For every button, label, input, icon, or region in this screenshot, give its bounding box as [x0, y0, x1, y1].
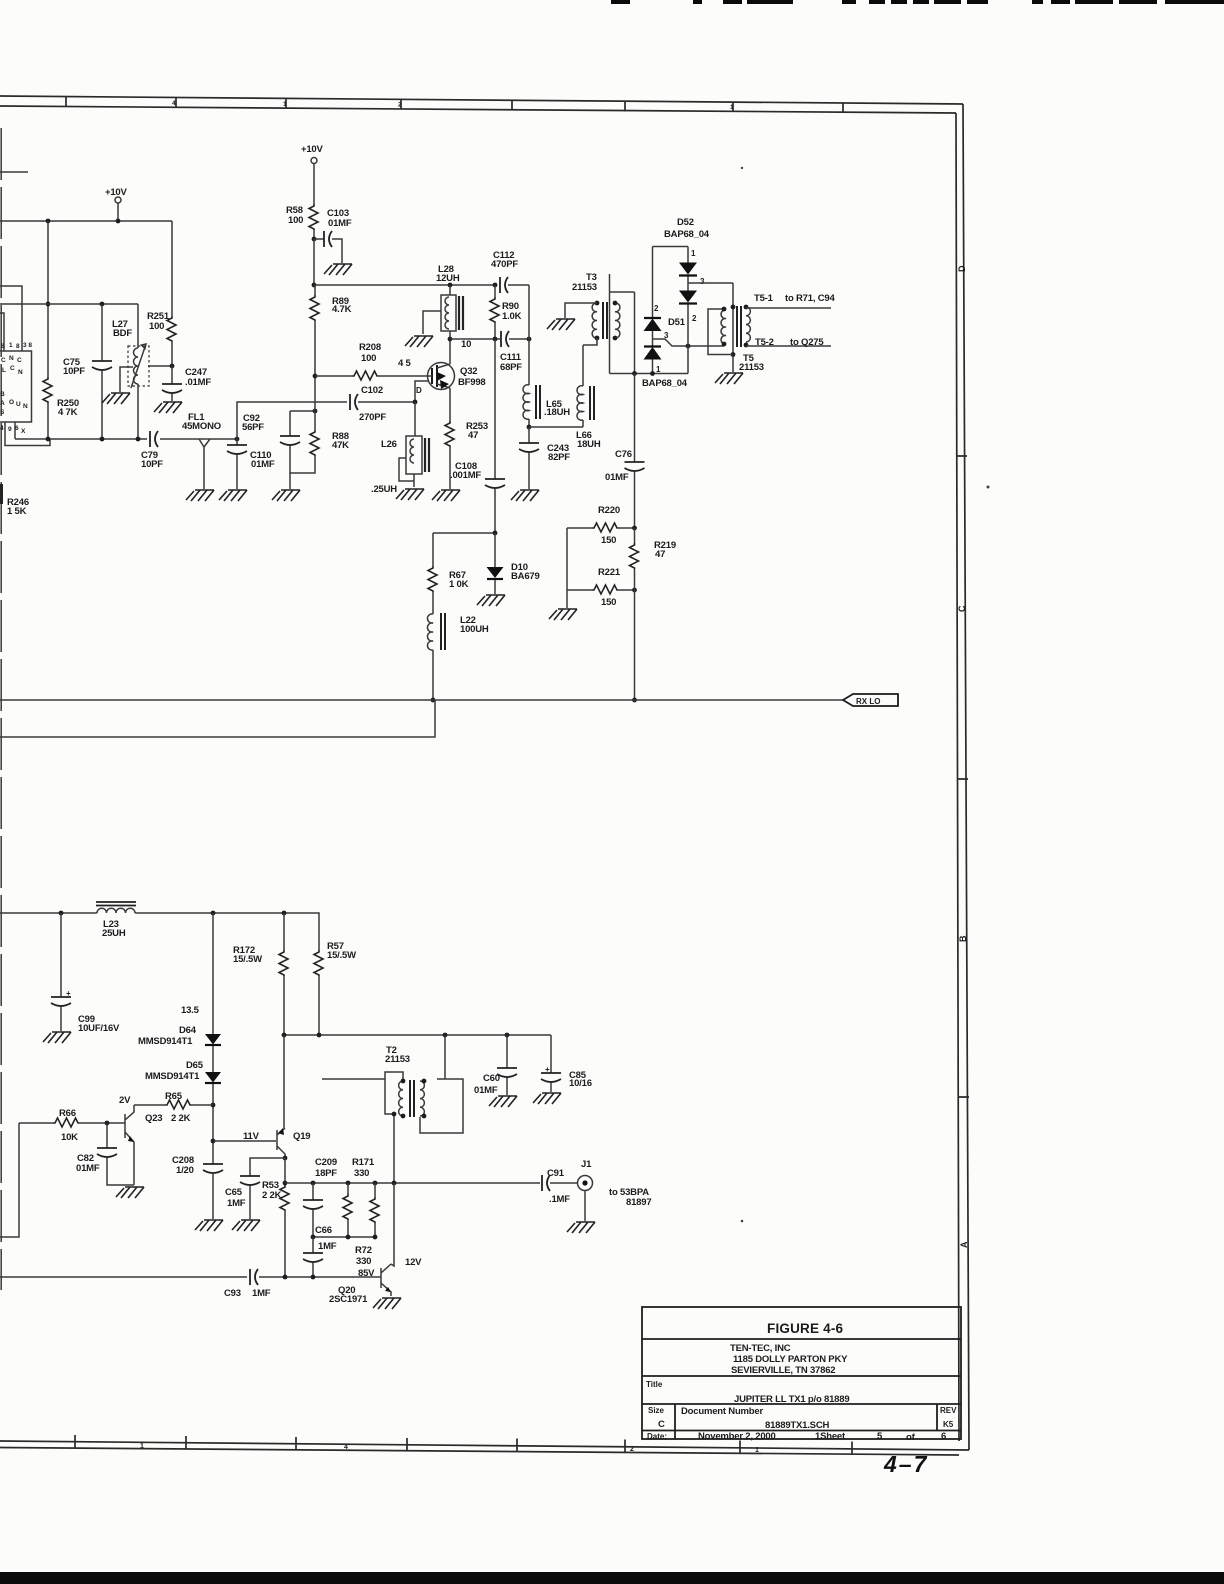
svg-text:85V: 85V: [358, 1268, 375, 1279]
svg-text:4 7K: 4 7K: [58, 407, 78, 418]
svg-text:C91: C91: [547, 1168, 565, 1179]
bottom border tick marks: [75, 1435, 852, 1455]
resistor R53: [262, 1158, 289, 1277]
svg-text:2V: 2V: [119, 1095, 131, 1106]
wire D52 tap y=283 to T5: [688, 282, 733, 284]
wire stub into U-box: [0, 286, 22, 351]
svg-text:Document Number: Document Number: [681, 1406, 763, 1417]
svg-text:100UH: 100UH: [460, 624, 489, 635]
wire drain x=450 and source chain: [449, 339, 451, 421]
ground (L28 shield): [405, 336, 433, 347]
capacitor C76: [605, 374, 645, 529]
svg-text:25UH: 25UH: [102, 928, 126, 939]
svg-text:C: C: [10, 365, 15, 372]
svg-text:01MF: 01MF: [251, 459, 275, 470]
svg-text:N: N: [23, 403, 28, 410]
svg-text:47K: 47K: [332, 440, 349, 451]
top border tick marks: [66, 97, 843, 114]
svg-text:1185 DOLLY PARTON PKY: 1185 DOLLY PARTON PKY: [733, 1354, 848, 1365]
capacitor C247: [162, 366, 211, 401]
svg-text:N: N: [18, 369, 23, 376]
svg-text:18PF: 18PF: [315, 1168, 337, 1179]
capacitor C110: [250, 411, 315, 489]
connector J1: [578, 1159, 652, 1221]
label R246 (cut): [0, 484, 29, 517]
ground (T5): [715, 373, 743, 384]
svg-text:68PF: 68PF: [500, 362, 522, 373]
svg-text:4: 4: [0, 425, 4, 432]
ground (J1): [567, 1222, 595, 1233]
svg-text:12V: 12V: [405, 1257, 422, 1268]
inductor L23: [96, 902, 136, 939]
svg-text:150: 150: [601, 535, 616, 546]
svg-text:REV: REV: [940, 1406, 957, 1415]
svg-text:15/.5W: 15/.5W: [233, 954, 262, 965]
svg-text:1.0K: 1.0K: [502, 311, 522, 322]
svg-text:MMSD914T1: MMSD914T1: [145, 1071, 200, 1082]
svg-text:D51: D51: [668, 317, 686, 328]
svg-text:.01MF: .01MF: [185, 377, 211, 388]
svg-text:6: 6: [941, 1431, 946, 1442]
ground (C110/R88): [272, 490, 300, 501]
svg-text:Q32: Q32: [460, 366, 477, 377]
svg-text:FIGURE 4-6: FIGURE 4-6: [767, 1321, 844, 1336]
resistor R72: [355, 1183, 379, 1267]
capacitor C91: [542, 1168, 577, 1205]
wire L65/L66 link y=427: [529, 426, 583, 428]
svg-text:to R71, C94: to R71, C94: [785, 293, 835, 304]
wire +10V rail y=221: [0, 220, 172, 222]
wire R67 node y=533: [433, 532, 495, 534]
capacitor C209: [303, 1183, 323, 1237]
sheet border: top double line: [0, 96, 969, 1455]
svg-text:+10V: +10V: [301, 144, 324, 155]
svg-text:1: 1: [691, 249, 696, 258]
ground (C103): [324, 264, 352, 275]
node C110/R88 top y=411: [290, 410, 315, 412]
resistor R253: [445, 421, 488, 489]
svg-text:O: O: [9, 399, 14, 406]
svg-text:C: C: [1, 357, 6, 364]
wire drain rail y=285: [314, 284, 497, 286]
wire T5-1 output: [746, 307, 831, 309]
collector feed wire y=1035: [284, 1034, 551, 1036]
wire x=213 bias chain: [212, 913, 214, 1164]
border zone digits bottom: [140, 1443, 759, 1454]
svg-text:100: 100: [288, 215, 303, 226]
shielded inductor L28: [423, 264, 463, 339]
svg-text:C65: C65: [225, 1187, 243, 1198]
svg-text:1/20: 1/20: [176, 1165, 194, 1176]
variable inductor L27: [112, 304, 149, 439]
svg-text:C: C: [17, 357, 22, 364]
svg-text:D: D: [957, 265, 967, 272]
svg-text:270PF: 270PF: [359, 412, 386, 423]
resistor R250: [43, 377, 79, 418]
wire branch x=48: [47, 221, 49, 439]
svg-text:B: B: [958, 935, 968, 942]
power +10V (Q32 rail): [301, 144, 324, 204]
ground (C99): [43, 1032, 71, 1043]
svg-text:R221: R221: [598, 567, 621, 578]
svg-text:D: D: [416, 386, 422, 395]
svg-text:2: 2: [654, 304, 659, 313]
transformer T5: [708, 283, 764, 373]
svg-text:R65: R65: [165, 1091, 183, 1102]
wire T3 primary top to ground: [565, 303, 597, 318]
wire R58 node down to rail: [313, 239, 315, 285]
svg-text:10K: 10K: [61, 1132, 78, 1143]
capacitor C65: [225, 1158, 285, 1219]
svg-text:C93: C93: [224, 1288, 241, 1299]
capacitor C92: [227, 413, 264, 489]
svg-text:.18UH: .18UH: [544, 407, 570, 418]
ground (C60): [489, 1096, 517, 1107]
title block frame: [642, 1307, 961, 1439]
ground (FL1): [186, 490, 214, 501]
transistor Q20 2SC1971: [329, 1183, 422, 1305]
svg-text:150: 150: [601, 597, 616, 608]
wire vertical x=634.5: [634, 292, 636, 374]
svg-text:2SC1971: 2SC1971: [329, 1294, 368, 1305]
svg-text:C66: C66: [315, 1225, 332, 1236]
base feed wire y=1277: [0, 1276, 381, 1278]
wire D51 tap to T5 y=346: [653, 339, 725, 346]
svg-text:4–7: 4–7: [883, 1451, 928, 1477]
svg-text:Title: Title: [646, 1380, 663, 1389]
transformer T2: [322, 1035, 463, 1183]
svg-text:3 8: 3 8: [23, 342, 32, 349]
svg-text:13.5: 13.5: [181, 1005, 200, 1016]
U-box bottom pin wires: [5, 422, 50, 446]
svg-text:R171: R171: [352, 1157, 375, 1168]
svg-text:B: B: [0, 391, 5, 398]
svg-text:RX LO: RX LO: [856, 697, 880, 706]
resistor R208: [315, 342, 428, 380]
svg-text:12UH: 12UH: [436, 273, 460, 284]
wire gate2 from C102 node: [415, 381, 429, 402]
ground (C247): [154, 402, 182, 413]
svg-text:56PF: 56PF: [242, 422, 264, 433]
svg-text:100: 100: [149, 321, 164, 332]
resistor R220: [567, 505, 635, 546]
svg-text:1: 1: [140, 1443, 144, 1450]
svg-text:1MF: 1MF: [252, 1288, 271, 1299]
svg-text:15/.5W: 15/.5W: [327, 950, 356, 961]
svg-text:C102: C102: [361, 385, 383, 396]
wire T3 secondary top y=292: [610, 291, 635, 293]
svg-text:November 2, 2000: November 2, 2000: [698, 1431, 776, 1442]
ground (C65): [232, 1220, 260, 1231]
border zone digits top: [172, 100, 734, 111]
capacitor C99 (polarized): [51, 913, 120, 1034]
wire T3 secondary stub: [609, 274, 611, 374]
svg-text:BDF: BDF: [113, 328, 132, 339]
svg-text:8: 8: [16, 343, 20, 350]
ground (R253): [432, 490, 460, 501]
svg-text:100: 100: [361, 353, 376, 364]
svg-text:C76: C76: [615, 449, 632, 460]
diode D64 MMSD914T1: [138, 1025, 221, 1047]
svg-text:1MF: 1MF: [318, 1241, 337, 1252]
svg-text:C209: C209: [315, 1157, 337, 1168]
svg-text:4: 4: [344, 1444, 348, 1451]
capacitor C102: [350, 385, 386, 423]
wire cut at left sheet edge: [0, 128, 2, 1290]
MOSFET Q32 BF998: [428, 363, 486, 390]
svg-text:.25UH: .25UH: [371, 484, 397, 495]
wire node 10 y=339: [450, 338, 500, 340]
diode D10 BA679: [487, 533, 540, 594]
svg-text:of: of: [906, 1432, 916, 1443]
svg-text:2: 2: [630, 1446, 634, 1453]
svg-text:47: 47: [655, 549, 665, 560]
right border tick marks: [956, 456, 969, 1097]
power +10V (left): [105, 187, 128, 221]
svg-text:4: 4: [172, 100, 176, 107]
svg-text:T5-1: T5-1: [754, 293, 774, 304]
svg-text:47: 47: [468, 430, 478, 441]
svg-text:470PF: 470PF: [491, 259, 518, 270]
svg-text:10/16: 10/16: [569, 1078, 592, 1089]
svg-text:10: 10: [461, 339, 471, 350]
capacitor C108: [450, 339, 505, 533]
svg-text:JUPITER LL TX1 p/o 81889: JUPITER LL TX1 p/o 81889: [734, 1394, 849, 1405]
resistor R88: [310, 411, 349, 456]
svg-text:U: U: [16, 401, 21, 408]
svg-text:01MF: 01MF: [328, 218, 352, 229]
capacitor C112: [491, 250, 529, 293]
svg-text:BF998: BF998: [458, 377, 486, 388]
svg-text:+: +: [66, 989, 71, 998]
svg-text:A: A: [0, 400, 5, 407]
capacitor C208: [172, 1155, 223, 1219]
svg-text:+: +: [545, 1065, 550, 1074]
svg-text:J1: J1: [581, 1159, 592, 1170]
node wire y=1237: [313, 1236, 375, 1238]
wire D-network top y=246.5: [653, 246, 689, 248]
svg-text:T5-2: T5-2: [755, 337, 774, 348]
svg-text:.1MF: .1MF: [549, 1194, 570, 1205]
svg-text:1: 1: [730, 104, 734, 111]
svg-text:BAP68_04: BAP68_04: [664, 229, 710, 240]
ground (C85): [533, 1093, 561, 1104]
svg-text:10PF: 10PF: [141, 459, 163, 470]
capacitor C93: [224, 1269, 271, 1299]
capacitor C75: [63, 304, 112, 439]
resistor R251: [147, 221, 176, 366]
stray scan specks: [741, 167, 743, 169]
svg-text:330: 330: [354, 1168, 369, 1179]
wire bias to Q19 base y=1141: [213, 1140, 276, 1142]
svg-text:D65: D65: [186, 1060, 204, 1071]
transistor Q19: [277, 1128, 310, 1158]
resistor R171: [343, 1183, 352, 1237]
capacitor C60: [474, 1035, 517, 1096]
svg-text:1: 1: [755, 1447, 759, 1454]
wire R66 feed from left: [0, 1123, 19, 1237]
svg-text:MMSD914T1: MMSD914T1: [138, 1036, 193, 1047]
ground (C208): [195, 1220, 223, 1231]
sheet border: right double line: [963, 104, 969, 1450]
svg-text:21153: 21153: [739, 362, 764, 373]
supply wire y=913: [0, 913, 319, 950]
svg-text:11V: 11V: [243, 1131, 260, 1142]
ground (Q20): [373, 1298, 401, 1309]
sheet border: bottom double line: [0, 1441, 969, 1450]
resistor R67: [428, 533, 469, 614]
svg-text:10PF: 10PF: [63, 366, 85, 377]
wire T5-2 output: [746, 345, 831, 347]
svg-text:18UH: 18UH: [577, 439, 601, 450]
IC U-box (cut off at left edge): [0, 342, 32, 435]
svg-text:L: L: [2, 367, 6, 374]
wire L27 tap to R251: [148, 365, 172, 367]
ground (L26): [396, 489, 424, 500]
svg-text:21153: 21153: [572, 282, 597, 293]
wire T3 primary bottom to L66: [583, 338, 597, 345]
svg-text:2 2K: 2 2K: [171, 1113, 191, 1124]
svg-text:2: 2: [398, 102, 402, 109]
resistor R57: [314, 941, 356, 1035]
svg-text:1: 1: [9, 342, 13, 349]
wire stub left edge y=172: [0, 171, 28, 173]
diode D65 MMSD914T1: [145, 1060, 221, 1083]
svg-text:45MONO: 45MONO: [182, 421, 221, 432]
svg-text:4 5: 4 5: [398, 358, 412, 369]
svg-text:9: 9: [8, 426, 12, 433]
svg-text:1 5K: 1 5K: [7, 506, 27, 517]
svg-text:1: 1: [283, 101, 287, 108]
svg-text:TEN-TEC, INC: TEN-TEC, INC: [730, 1343, 791, 1354]
inductor L22: [427, 613, 488, 700]
capacitor C243: [519, 427, 570, 489]
svg-text:SEVIERVILLE, TN 37862: SEVIERVILLE, TN 37862: [731, 1365, 835, 1376]
inductor L26 (shielded): [371, 402, 429, 495]
resistor R219: [630, 528, 676, 700]
svg-text:R66: R66: [59, 1108, 76, 1119]
wire FL1 to C92 node: [215, 438, 237, 440]
resistor R172: [233, 913, 288, 1035]
transistor Q23: [107, 1095, 191, 1185]
long wire RX LO y=700: [0, 699, 843, 701]
svg-text:10UF/16V: 10UF/16V: [78, 1023, 120, 1034]
resistor R221: [567, 528, 635, 608]
capacitor C103: [314, 208, 352, 263]
svg-text:R208: R208: [359, 342, 381, 353]
inductor L66: [576, 345, 601, 450]
ground (C243): [511, 490, 539, 501]
wire mixer bottom y=373.5: [610, 373, 689, 375]
output node wire y=1183: [285, 1182, 540, 1184]
svg-text:Q23: Q23: [145, 1113, 162, 1124]
ground (C92): [219, 490, 247, 501]
svg-text:4.7K: 4.7K: [332, 304, 352, 315]
svg-text:+10V: +10V: [105, 187, 128, 198]
long return wire y=737: [0, 700, 435, 737]
svg-text:81897: 81897: [626, 1197, 651, 1208]
svg-text:X: X: [21, 428, 26, 435]
resistor R89: [310, 285, 352, 411]
svg-text:01MF: 01MF: [474, 1085, 498, 1096]
capacitor C85 (polarized): [541, 1035, 592, 1092]
transformer T3: [572, 272, 620, 340]
svg-text:S: S: [0, 409, 5, 416]
scan artifact: top edge black dashes: [611, 0, 1224, 4]
svg-text:82PF: 82PF: [548, 452, 570, 463]
ground (D10): [477, 595, 505, 606]
svg-text:5: 5: [877, 1431, 883, 1442]
svg-text:3: 3: [700, 277, 705, 286]
svg-text:K5: K5: [943, 1420, 954, 1429]
svg-text:to Q275: to Q275: [790, 337, 824, 348]
scan artifact: bottom black bar: [0, 1572, 1224, 1584]
svg-text:C60: C60: [483, 1073, 500, 1084]
svg-text:1 0K: 1 0K: [449, 579, 469, 590]
svg-text:N: N: [9, 355, 14, 362]
svg-text:01MF: 01MF: [76, 1163, 100, 1174]
resistor R58: [286, 204, 318, 239]
capacitor C66: [303, 1225, 337, 1277]
svg-text:C: C: [957, 605, 967, 612]
svg-text:81889TX1.SCH: 81889TX1.SCH: [765, 1420, 829, 1431]
svg-text:A: A: [959, 1241, 969, 1248]
ceramic filter FL1: [182, 412, 221, 489]
UPPER-END: [0, 902, 651, 1309]
svg-text:R72: R72: [355, 1245, 372, 1256]
svg-text:Date:: Date:: [647, 1432, 667, 1441]
wire bus y=304: [0, 303, 138, 305]
svg-text:01MF: 01MF: [605, 472, 629, 483]
svg-text:L26: L26: [381, 439, 397, 450]
svg-text:8: 8: [1, 343, 5, 350]
svg-text:BAP68_04: BAP68_04: [642, 378, 688, 389]
svg-text:21153: 21153: [385, 1054, 410, 1065]
svg-text:Size: Size: [648, 1406, 665, 1415]
capacitor C111: [500, 331, 529, 373]
capacitor C79: [141, 431, 163, 470]
resistor R90: [490, 285, 522, 339]
ground (L27): [102, 393, 130, 404]
wire x=529 down, inductor L65: [523, 285, 570, 427]
svg-text:R220: R220: [598, 505, 620, 516]
svg-text:2: 2: [692, 314, 697, 323]
resistor R66: [19, 1108, 107, 1143]
capacitor C82: [76, 1123, 134, 1185]
resistor R65: [134, 1091, 213, 1109]
svg-text:1: 1: [656, 365, 661, 374]
svg-text:C: C: [658, 1419, 665, 1430]
svg-text:D64: D64: [179, 1025, 197, 1036]
wire input y=439: [15, 438, 197, 440]
ground (Q23/C82): [116, 1187, 144, 1198]
svg-text:.001MF: .001MF: [450, 470, 481, 481]
svg-text:2 2K: 2 2K: [262, 1190, 282, 1201]
wire C92 node up and right y=402: [237, 402, 415, 439]
svg-text:330: 330: [356, 1256, 371, 1267]
diode D51 (BAP68_04): [644, 247, 686, 375]
signal flag RX LO: [843, 694, 898, 706]
svg-text:D52: D52: [677, 217, 694, 228]
svg-text:BA679: BA679: [511, 571, 540, 582]
diode D52 (BAP68_04): [664, 217, 710, 374]
svg-text:Q19: Q19: [293, 1131, 310, 1142]
border zone letters right edge: [957, 265, 969, 1248]
ground (R221): [566, 590, 568, 608]
svg-text:1MF: 1MF: [227, 1198, 246, 1209]
svg-text:1Sheet: 1Sheet: [815, 1431, 846, 1442]
